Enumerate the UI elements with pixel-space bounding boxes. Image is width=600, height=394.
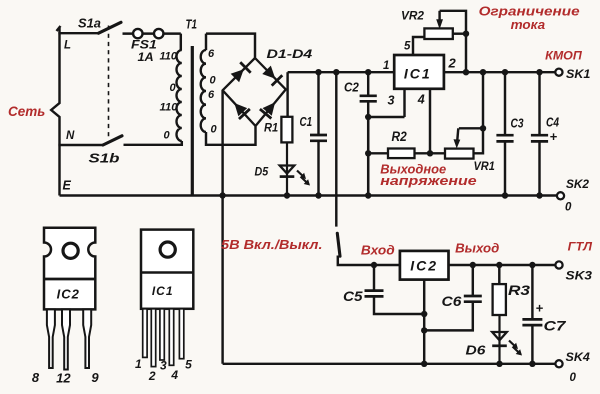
- svg-text:L: L: [64, 40, 71, 52]
- svg-text:4: 4: [170, 368, 178, 382]
- svg-text:12: 12: [56, 371, 71, 386]
- svg-text:C1: C1: [300, 115, 313, 129]
- svg-text:2: 2: [448, 56, 457, 71]
- svg-text:0: 0: [210, 75, 217, 87]
- svg-text:ГТЛ: ГТЛ: [568, 240, 593, 254]
- svg-text:SK2: SK2: [566, 177, 589, 191]
- svg-text:S1b: S1b: [89, 152, 120, 166]
- svg-text:Сеть: Сеть: [8, 104, 45, 119]
- svg-text:C6: C6: [442, 293, 462, 309]
- svg-text:1: 1: [383, 60, 389, 72]
- svg-text:2: 2: [148, 369, 156, 383]
- svg-text:IC1: IC1: [404, 66, 432, 82]
- svg-text:D1-D4: D1-D4: [267, 47, 313, 61]
- svg-text:Вход: Вход: [361, 244, 395, 258]
- svg-text:110: 110: [160, 102, 179, 114]
- svg-text:E: E: [63, 179, 72, 193]
- svg-text:0: 0: [570, 372, 577, 384]
- svg-text:6: 6: [208, 48, 215, 60]
- svg-text:0: 0: [170, 82, 177, 94]
- svg-text:VR2: VR2: [401, 9, 424, 23]
- svg-text:C3: C3: [511, 117, 524, 131]
- svg-text:0: 0: [164, 130, 171, 142]
- svg-text:C2: C2: [344, 80, 359, 95]
- svg-text:IC1: IC1: [152, 284, 174, 298]
- svg-text:C7: C7: [544, 318, 567, 334]
- svg-text:R3: R3: [508, 282, 530, 298]
- svg-text:SK3: SK3: [566, 269, 593, 283]
- svg-text:N: N: [66, 130, 75, 142]
- svg-text:8: 8: [32, 370, 40, 385]
- svg-text:4: 4: [417, 93, 425, 107]
- svg-text:R1: R1: [264, 123, 278, 135]
- svg-text:+: +: [536, 301, 544, 316]
- svg-text:VR1: VR1: [474, 159, 496, 173]
- svg-text:T1: T1: [186, 18, 198, 32]
- svg-text:C4: C4: [546, 116, 559, 130]
- svg-text:5В Вкл./Выкл.: 5В Вкл./Выкл.: [221, 238, 323, 252]
- svg-text:1: 1: [135, 357, 142, 371]
- svg-text:напряжение: напряжение: [380, 174, 476, 188]
- svg-text:C5: C5: [343, 288, 363, 304]
- svg-text:1A: 1A: [138, 52, 154, 64]
- svg-text:R2: R2: [392, 129, 408, 144]
- svg-text:3: 3: [160, 359, 167, 373]
- svg-text:0: 0: [565, 202, 572, 214]
- svg-text:110: 110: [160, 51, 178, 63]
- svg-text:3: 3: [388, 94, 395, 108]
- svg-text:6: 6: [208, 89, 215, 101]
- svg-text:9: 9: [91, 370, 99, 385]
- svg-text:SK4: SK4: [566, 350, 591, 364]
- svg-text:КМОП: КМОП: [545, 51, 582, 63]
- svg-text:SK1: SK1: [566, 67, 591, 81]
- svg-text:IC2: IC2: [410, 258, 438, 274]
- svg-text:+: +: [550, 129, 558, 144]
- svg-text:S1a: S1a: [78, 17, 101, 31]
- svg-text:IC2: IC2: [57, 287, 80, 302]
- svg-text:Выход: Выход: [455, 242, 499, 256]
- svg-text:D6: D6: [466, 344, 487, 358]
- svg-text:FS1: FS1: [131, 40, 157, 52]
- svg-text:тока: тока: [511, 17, 546, 32]
- svg-text:5: 5: [185, 357, 192, 371]
- svg-text:0: 0: [211, 124, 218, 136]
- svg-text:5: 5: [404, 41, 411, 53]
- svg-text:D5: D5: [255, 167, 269, 179]
